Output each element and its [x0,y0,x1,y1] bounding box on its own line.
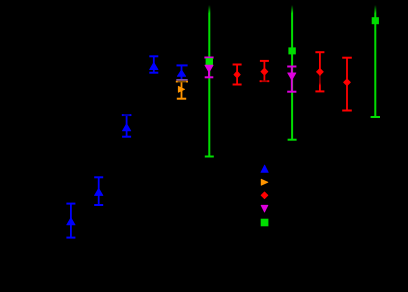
magenta errorbar M1 [204,58,213,78]
legend marker green square [261,219,269,227]
red errorbar R1 [233,65,242,85]
legend marker red diamond [261,192,268,199]
green errorbar G3 [371,5,380,117]
legend marker magenta triangle-down [261,205,268,212]
blue errorbar B3 [122,114,132,137]
legend marker blue triangle-up [261,165,268,172]
green square marker G2 [288,47,295,54]
blue errorbar B2 [94,177,103,205]
blue errorbar B4 [149,56,158,72]
magenta triangle marker M2 [288,73,296,80]
green errorbar G2 [288,5,297,140]
red errorbar R3 [315,52,324,91]
green square marker G1 [206,58,213,65]
blue errorbar B5 [176,65,187,80]
magenta triangle marker M1 [205,65,213,72]
green square marker G3 [372,17,379,24]
green errorbar G1 [205,5,214,157]
orange errorbar O1 [176,81,188,99]
legend marker orange triangle-right [261,179,268,185]
blue errorbar B1 [66,204,75,238]
red errorbar R4 [342,58,352,111]
red errorbar R2 [260,61,270,82]
magenta errorbar M2 [287,67,296,92]
